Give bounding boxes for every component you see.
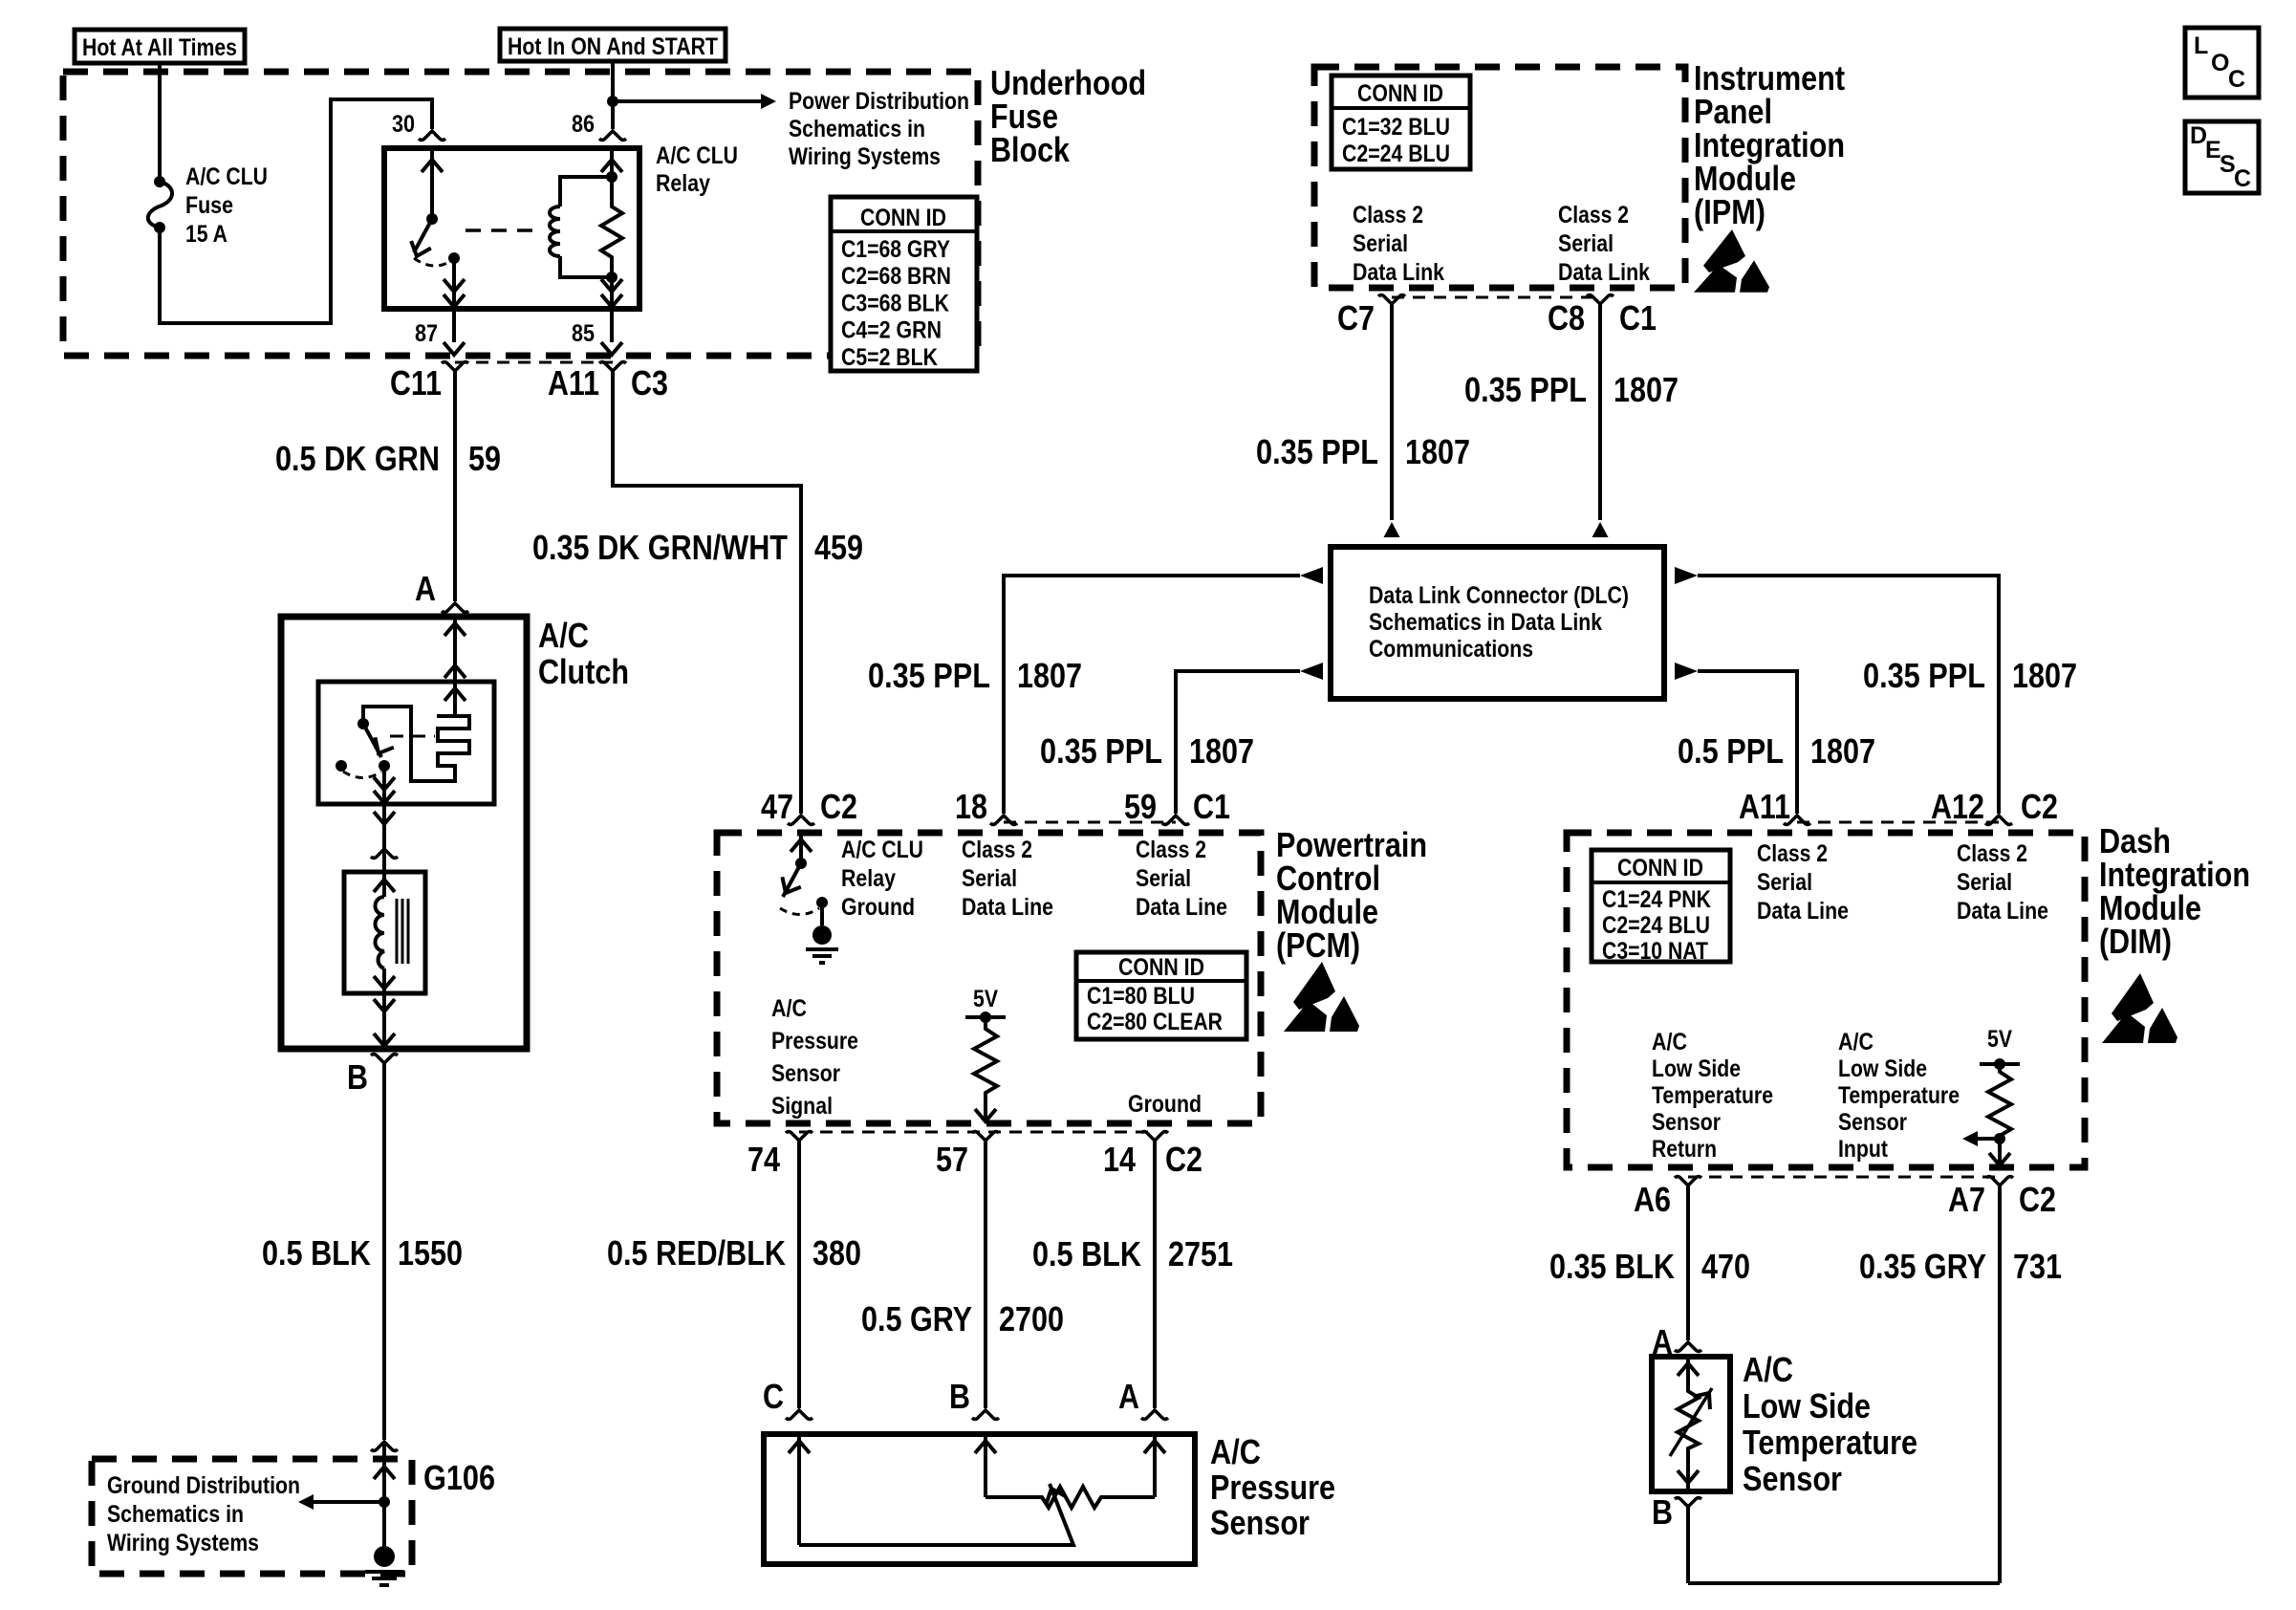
- relay pin 87 wire: [452, 258, 456, 309]
- svg-text:Class 2: Class 2: [962, 837, 1032, 863]
- svg-text:(IPM): (IPM): [1694, 192, 1765, 231]
- DIM 5V supply bar: [1980, 1062, 2020, 1066]
- wire 731 from A7 to temp sensor pin B: [1688, 1186, 2000, 1583]
- svg-text:Pressure: Pressure: [771, 1028, 858, 1055]
- svg-text:A6: A6: [1634, 1180, 1671, 1219]
- arrowhead into DLC from C7: [1384, 522, 1400, 537]
- DESC reference box: [2185, 121, 2259, 193]
- svg-text:C7: C7: [1337, 298, 1375, 337]
- wire between clutch switch and coil: [382, 804, 386, 872]
- svg-text:1807: 1807: [1810, 731, 1875, 771]
- svg-text:Temperature: Temperature: [1652, 1082, 1773, 1109]
- potentiometer R1 track: [986, 1487, 1155, 1508]
- svg-text:B: B: [347, 1057, 368, 1097]
- svg-text:A/C: A/C: [1743, 1350, 1793, 1389]
- wire 1807 DLC to PCM pin 18: [1004, 576, 1300, 814]
- CONN ID table (DIM): [1592, 850, 1730, 962]
- wire 2751 from pin 14 to sensor pin A: [1153, 1141, 1157, 1408]
- svg-text:0.5 RED/BLK: 0.5 RED/BLK: [607, 1233, 786, 1273]
- svg-text:A/C: A/C: [1210, 1432, 1261, 1471]
- svg-text:Serial: Serial: [1957, 869, 2012, 896]
- svg-text:A: A: [1118, 1377, 1139, 1416]
- wire 459 from C3 to PCM pin 47: [613, 371, 801, 814]
- svg-text:74: 74: [747, 1140, 780, 1179]
- connector C8: [1587, 295, 1614, 305]
- thermistor variable arrow: [1670, 1388, 1712, 1456]
- wire 380 from pin 74 to sensor pin C: [797, 1141, 801, 1408]
- clutch switch output wire: [382, 766, 386, 804]
- svg-text:Signal: Signal: [771, 1093, 833, 1120]
- wire 2700 from pin 57 to sensor pin B: [984, 1141, 987, 1408]
- svg-text:0.5 BLK: 0.5 BLK: [262, 1233, 371, 1273]
- svg-text:1807: 1807: [1405, 432, 1470, 471]
- svg-text:A11: A11: [548, 363, 599, 402]
- ESD sensitive symbol PCM: [1284, 962, 1359, 1032]
- wire 1807 DLC to PCM pin 59: [1176, 671, 1300, 814]
- svg-text:15 A: 15 A: [185, 221, 227, 248]
- CONN ID table (underhood fuse block): [831, 197, 977, 371]
- DIM top inline connector dashed bridge: [1797, 821, 1999, 824]
- svg-text:Relay: Relay: [841, 865, 896, 892]
- svg-text:C4=2 GRN: C4=2 GRN: [841, 317, 942, 344]
- connector at relay pin 30: [419, 131, 445, 141]
- LOC reference box: [2185, 28, 2259, 98]
- DIM branch arrow left: [1976, 1137, 2000, 1141]
- PCM top inline connector dashed bridge: [1004, 821, 1176, 824]
- relay coil suppression resistor: [601, 177, 622, 277]
- thermistor RT1: [1678, 1388, 1699, 1450]
- svg-text:A/C: A/C: [1838, 1029, 1874, 1055]
- svg-text:C2: C2: [2019, 1180, 2056, 1219]
- svg-text:C1: C1: [1193, 787, 1230, 826]
- relay K1 A/C CLU Relay box: [384, 148, 639, 309]
- relay dashed link to coil: [466, 228, 540, 232]
- PCM bottom inline connector dashed bridge: [799, 1131, 1155, 1134]
- svg-text:Schematics in: Schematics in: [107, 1501, 244, 1528]
- svg-text:47: 47: [761, 787, 793, 826]
- svg-text:C1=24 PNK: C1=24 PNK: [1602, 886, 1711, 913]
- connector at DIM pin A11: [1784, 816, 1810, 825]
- svg-text:57: 57: [936, 1140, 968, 1179]
- svg-text:470: 470: [1701, 1247, 1750, 1286]
- A/C clutch box: [281, 617, 527, 1049]
- svg-text:Fuse: Fuse: [185, 192, 233, 219]
- svg-text:Serial: Serial: [1353, 230, 1408, 257]
- sensor pin B wire inside: [984, 1434, 987, 1497]
- svg-text:5V: 5V: [1987, 1026, 2012, 1053]
- svg-text:Input: Input: [1838, 1136, 1889, 1163]
- PCM pullup resistor: [984, 1017, 987, 1025]
- svg-text:CONN ID: CONN ID: [1357, 80, 1443, 107]
- PCM switch contact node: [816, 897, 828, 908]
- relay switch dashed travel arc: [414, 258, 452, 266]
- wire 59 from C11 to A/C clutch pin A: [453, 371, 457, 601]
- svg-text:A/C: A/C: [538, 616, 589, 655]
- CONN ID table (IPM): [1332, 76, 1470, 169]
- potentiometer wiper arm: [799, 1484, 1073, 1545]
- CONN ID table (PCM): [1076, 952, 1246, 1039]
- clutch switch contact nodes: [336, 760, 347, 772]
- ground symbol G106: [374, 1546, 395, 1567]
- PCM resistor lower wire to pin 57: [984, 1096, 987, 1121]
- clutch coil inner box: [344, 872, 425, 993]
- svg-text:Data Link: Data Link: [1558, 259, 1650, 286]
- svg-text:Low Side: Low Side: [1743, 1386, 1871, 1425]
- svg-text:C3=68 BLK: C3=68 BLK: [841, 290, 949, 316]
- svg-text:C2: C2: [1165, 1140, 1202, 1179]
- svg-text:Block: Block: [990, 130, 1071, 169]
- relay pin 85 wire to fuse block edge: [610, 309, 614, 342]
- wire branch to power distribution: [613, 99, 761, 103]
- svg-text:C1: C1: [1619, 298, 1657, 337]
- clutch switch dashed travel arc: [343, 772, 381, 778]
- wire from fuse to relay pin 30: [160, 99, 432, 323]
- relay pin 87 wire to fuse block edge: [452, 309, 456, 342]
- connector A11/C3 below fuse block: [599, 362, 626, 372]
- svg-text:A11: A11: [1739, 787, 1790, 826]
- svg-text:B: B: [949, 1377, 970, 1416]
- svg-text:C1=80 BLU: C1=80 BLU: [1087, 983, 1195, 1010]
- svg-text:Temperature: Temperature: [1838, 1082, 1960, 1109]
- fuse F1 A/C CLU 15A: [154, 176, 165, 187]
- clutch coil wire bottom: [382, 968, 386, 993]
- svg-text:30: 30: [392, 111, 415, 138]
- svg-text:Hot In ON And START: Hot In ON And START: [508, 33, 718, 60]
- G106 branch arrow to ground distribution: [314, 1500, 384, 1504]
- PCM switch arm: [783, 863, 801, 897]
- svg-text:A7: A7: [1948, 1180, 1985, 1219]
- arrowhead to power distribution: [761, 94, 776, 109]
- svg-text:A/C: A/C: [1652, 1029, 1687, 1055]
- clutch pin A wire inside: [453, 617, 457, 682]
- svg-text:(DIM): (DIM): [2099, 922, 2172, 961]
- dash integration module dashed box: [1567, 833, 2085, 1167]
- relay pin 85 wire: [610, 277, 614, 309]
- ground symbol inside PCM: [812, 925, 832, 945]
- svg-text:Schematics in Data Link: Schematics in Data Link: [1369, 609, 1602, 636]
- svg-text:1807: 1807: [1017, 656, 1082, 695]
- A/C low side temperature sensor box: [1652, 1357, 1730, 1491]
- wire 1807 from C7 to DLC: [1390, 304, 1394, 520]
- svg-text:Power Distribution: Power Distribution: [789, 88, 969, 115]
- svg-text:Schematics in: Schematics in: [789, 116, 925, 142]
- svg-text:Serial: Serial: [1558, 230, 1614, 257]
- powertrain control module dashed box: [717, 833, 1261, 1123]
- svg-text:A12: A12: [1931, 787, 1984, 826]
- svg-text:0.35 DK GRN/WHT: 0.35 DK GRN/WHT: [532, 528, 788, 567]
- connector C7: [1378, 295, 1405, 305]
- svg-text:18: 18: [955, 787, 987, 826]
- svg-text:C: C: [2228, 66, 2245, 93]
- connector at relay pin 86: [599, 131, 626, 141]
- PCM ground wire: [820, 903, 824, 925]
- G106 branch node: [379, 1496, 390, 1508]
- svg-text:C1=68 GRY: C1=68 GRY: [841, 236, 950, 263]
- junction node on pin 86 wire: [607, 96, 618, 107]
- svg-text:Sensor: Sensor: [771, 1060, 840, 1087]
- svg-text:CONN ID: CONN ID: [860, 205, 946, 231]
- instrument panel integration module dashed box: [1314, 67, 1685, 288]
- G106 wire inside: [382, 1442, 386, 1551]
- arrowhead into DLC from C8: [1592, 522, 1609, 537]
- connector at DIM pin A7: [1986, 1177, 2013, 1186]
- data link connector DLC box: [1331, 547, 1664, 699]
- svg-text:1550: 1550: [398, 1233, 463, 1273]
- clutch core lines: [397, 899, 408, 964]
- svg-text:Serial: Serial: [1757, 869, 1812, 896]
- svg-text:Wiring Systems: Wiring Systems: [107, 1530, 259, 1556]
- wire 470 from A6 to temp sensor pin A: [1686, 1186, 1690, 1340]
- svg-text:0.35 PPL: 0.35 PPL: [1040, 731, 1162, 771]
- connector at PCM pin 18: [990, 816, 1017, 825]
- clutch pin B wire inside: [382, 993, 386, 1049]
- svg-text:C2=80 CLEAR: C2=80 CLEAR: [1087, 1009, 1223, 1035]
- clutch switch wire from top: [453, 682, 457, 716]
- header box: Hot In ON And START: [500, 29, 726, 61]
- connector at temp sensor pin B: [1675, 1498, 1701, 1508]
- PCM 5V supply bar: [965, 1015, 1006, 1019]
- svg-text:Return: Return: [1652, 1136, 1717, 1163]
- DLC right arrowhead lower: [1675, 663, 1698, 680]
- DIM resistor bottom node: [1994, 1133, 2005, 1144]
- svg-text:Sensor: Sensor: [1652, 1109, 1721, 1136]
- svg-text:O: O: [2211, 50, 2229, 76]
- connector at clutch pin B: [371, 1055, 398, 1064]
- temp sensor pin B wire: [1686, 1507, 1690, 1583]
- svg-text:C3=10 NAT: C3=10 NAT: [1602, 938, 1708, 965]
- wire 1807 from C8 to DLC: [1598, 304, 1602, 520]
- connector at G106: [371, 1442, 398, 1451]
- connector at DIM pin A6: [1675, 1177, 1701, 1186]
- DIM bottom inline connector dashed bridge: [1688, 1176, 2000, 1179]
- svg-text:0.5 DK GRN: 0.5 DK GRN: [275, 439, 440, 478]
- svg-text:0.5 GRY: 0.5 GRY: [861, 1299, 972, 1338]
- svg-text:CONN ID: CONN ID: [1118, 954, 1204, 981]
- connector C11 below fuse block: [442, 362, 468, 372]
- connector at PCM pin 59: [1162, 816, 1189, 825]
- svg-text:1807: 1807: [2012, 656, 2077, 695]
- relay switch contact node to pin 87: [448, 252, 460, 264]
- sensor pin A wire inside: [1153, 1434, 1157, 1497]
- DLC right arrowhead upper: [1675, 567, 1698, 584]
- svg-text:14: 14: [1103, 1140, 1136, 1179]
- svg-text:1807: 1807: [1614, 370, 1679, 409]
- clutch coil wire top: [382, 872, 386, 897]
- ESD sensitive symbol DIM: [2102, 973, 2177, 1043]
- svg-text:C: C: [2234, 165, 2251, 192]
- svg-text:Class 2: Class 2: [1558, 202, 1629, 228]
- svg-text:G106: G106: [423, 1458, 495, 1497]
- svg-text:1807: 1807: [1189, 731, 1254, 771]
- temp sensor wire inside: [1686, 1357, 1690, 1388]
- connector at PCM pin 57: [972, 1132, 999, 1142]
- svg-text:0.35 GRY: 0.35 GRY: [1859, 1247, 1986, 1286]
- DLC left arrowhead upper: [1300, 567, 1323, 584]
- svg-text:0.35 PPL: 0.35 PPL: [1863, 656, 1985, 695]
- svg-text:Sensor: Sensor: [1743, 1459, 1842, 1498]
- clutch coil L2: [376, 897, 385, 968]
- svg-text:(PCM): (PCM): [1276, 925, 1360, 965]
- clutch switch arm: [363, 724, 381, 757]
- ground distribution dashed box: [92, 1459, 412, 1574]
- svg-text:0.35 PPL: 0.35 PPL: [868, 656, 990, 695]
- svg-text:Data Link: Data Link: [1353, 259, 1444, 286]
- svg-text:Class 2: Class 2: [1957, 840, 2027, 867]
- IPM bottom inline connector dashed bridge: [1392, 296, 1600, 299]
- relay switch arm: [414, 219, 432, 252]
- svg-text:Class 2: Class 2: [1757, 840, 1828, 867]
- svg-text:87: 87: [415, 320, 438, 347]
- svg-text:A/C CLU: A/C CLU: [185, 163, 268, 190]
- svg-text:A: A: [415, 569, 436, 608]
- wire 1807 DLC to DIM pin A12: [1698, 576, 1999, 814]
- wire from Hot At All Times to fuse: [158, 63, 162, 182]
- svg-text:Clutch: Clutch: [538, 652, 629, 691]
- connector at sensor pin A: [1141, 1410, 1168, 1420]
- svg-text:Hot At All Times: Hot At All Times: [82, 34, 237, 61]
- svg-text:C: C: [763, 1377, 784, 1416]
- svg-text:C5=2 BLK: C5=2 BLK: [841, 344, 938, 371]
- svg-text:Serial: Serial: [962, 865, 1017, 892]
- wire 1807 DLC to DIM pin A11: [1698, 671, 1797, 814]
- svg-text:459: 459: [814, 528, 863, 567]
- svg-text:A/C: A/C: [771, 995, 807, 1022]
- svg-text:Data Link Connector (DLC): Data Link Connector (DLC): [1369, 582, 1629, 609]
- svg-text:0.35 PPL: 0.35 PPL: [1464, 370, 1587, 409]
- connector at PCM pin 74: [786, 1132, 812, 1142]
- svg-text:59: 59: [1124, 787, 1157, 826]
- svg-text:Serial: Serial: [1136, 865, 1191, 892]
- svg-text:L: L: [2194, 33, 2208, 59]
- svg-text:Communications: Communications: [1369, 636, 1533, 663]
- sensor pin C wire inside: [797, 1434, 801, 1545]
- PCM relay ground switch wire: [799, 833, 803, 863]
- svg-text:0.5 PPL: 0.5 PPL: [1678, 731, 1784, 771]
- A/C pressure sensor box: [764, 1434, 1195, 1564]
- svg-text:59: 59: [468, 439, 501, 478]
- wire from Hot In ON And START to relay pin 86: [611, 61, 615, 129]
- svg-text:Sensor: Sensor: [1838, 1109, 1907, 1136]
- svg-text:731: 731: [2013, 1247, 2062, 1286]
- svg-text:0.35 BLK: 0.35 BLK: [1549, 1247, 1675, 1286]
- svg-text:C8: C8: [1548, 298, 1585, 337]
- svg-text:C2: C2: [820, 787, 857, 826]
- PCM switch dashed arc: [780, 908, 819, 915]
- svg-text:Data Line: Data Line: [1957, 898, 2048, 925]
- svg-text:Ground Distribution: Ground Distribution: [107, 1472, 300, 1499]
- relay switch wire from pin 30: [430, 148, 434, 219]
- DLC left arrowhead lower: [1300, 663, 1323, 680]
- DIM wire to pin A7: [1998, 1139, 2002, 1165]
- svg-text:2751: 2751: [1168, 1234, 1233, 1273]
- clutch switch inner box: [318, 682, 494, 804]
- relay switch pivot node: [426, 213, 438, 225]
- svg-text:Data Line: Data Line: [962, 894, 1053, 921]
- svg-text:Class 2: Class 2: [1136, 837, 1206, 863]
- clutch contact comb: [363, 707, 469, 781]
- svg-text:Data Line: Data Line: [1757, 898, 1849, 925]
- connector at sensor pin C: [786, 1410, 812, 1420]
- DIM pullup resistor: [1998, 1064, 2002, 1068]
- connector at PCM pin 47: [788, 816, 814, 825]
- svg-text:85: 85: [572, 320, 595, 347]
- svg-text:Class 2: Class 2: [1353, 202, 1423, 228]
- underhood fuse block dashed box: [63, 72, 978, 356]
- svg-text:CONN ID: CONN ID: [1617, 855, 1703, 881]
- connector at temp sensor pin A: [1675, 1342, 1701, 1352]
- clutch dashed link to comb: [390, 735, 435, 738]
- svg-text:Temperature: Temperature: [1743, 1423, 1917, 1462]
- svg-text:86: 86: [572, 111, 595, 138]
- svg-text:C3: C3: [631, 363, 668, 402]
- svg-text:A/C CLU: A/C CLU: [656, 142, 738, 169]
- svg-text:C2=24 BLU: C2=24 BLU: [1342, 141, 1450, 167]
- svg-text:Low Side: Low Side: [1652, 1055, 1741, 1082]
- svg-text:Wiring Systems: Wiring Systems: [789, 143, 941, 170]
- clutch switch pivot node: [357, 718, 369, 729]
- PCM switch pivot node: [795, 858, 807, 869]
- connector at clutch pin A: [442, 603, 468, 613]
- svg-text:C11: C11: [390, 363, 442, 402]
- svg-text:C2: C2: [2021, 787, 2058, 826]
- svg-text:2700: 2700: [999, 1299, 1064, 1338]
- inline connector dashed bridge C11-A11: [455, 361, 613, 364]
- svg-text:Pressure: Pressure: [1210, 1468, 1335, 1507]
- svg-text:C1=32 BLU: C1=32 BLU: [1342, 114, 1450, 141]
- svg-text:B: B: [1652, 1492, 1673, 1532]
- svg-text:Relay: Relay: [656, 170, 710, 197]
- svg-text:0.5 BLK: 0.5 BLK: [1032, 1234, 1141, 1273]
- svg-text:0.35 PPL: 0.35 PPL: [1256, 432, 1378, 471]
- svg-text:Low Side: Low Side: [1838, 1055, 1927, 1082]
- svg-text:C2=68 BRN: C2=68 BRN: [841, 263, 951, 290]
- wire 1550 from clutch B to G106: [382, 1063, 386, 1440]
- svg-text:5V: 5V: [973, 986, 998, 1012]
- relay coil L1: [550, 177, 612, 277]
- svg-text:Data Line: Data Line: [1136, 894, 1227, 921]
- ESD sensitive symbol IPM: [1694, 229, 1769, 293]
- svg-text:A/C CLU: A/C CLU: [841, 837, 923, 863]
- header box: Hot At All Times: [75, 30, 245, 63]
- svg-text:380: 380: [812, 1233, 861, 1273]
- connector at sensor pin B: [972, 1410, 999, 1420]
- svg-text:Ground: Ground: [841, 894, 915, 921]
- svg-text:Ground: Ground: [1128, 1091, 1202, 1118]
- svg-text:Sensor: Sensor: [1210, 1503, 1310, 1542]
- connector at DIM pin A12: [1985, 816, 2012, 825]
- relay coil branch top wire: [610, 148, 614, 177]
- svg-text:C2=24 BLU: C2=24 BLU: [1602, 912, 1710, 939]
- connector at PCM pin 14: [1141, 1132, 1168, 1142]
